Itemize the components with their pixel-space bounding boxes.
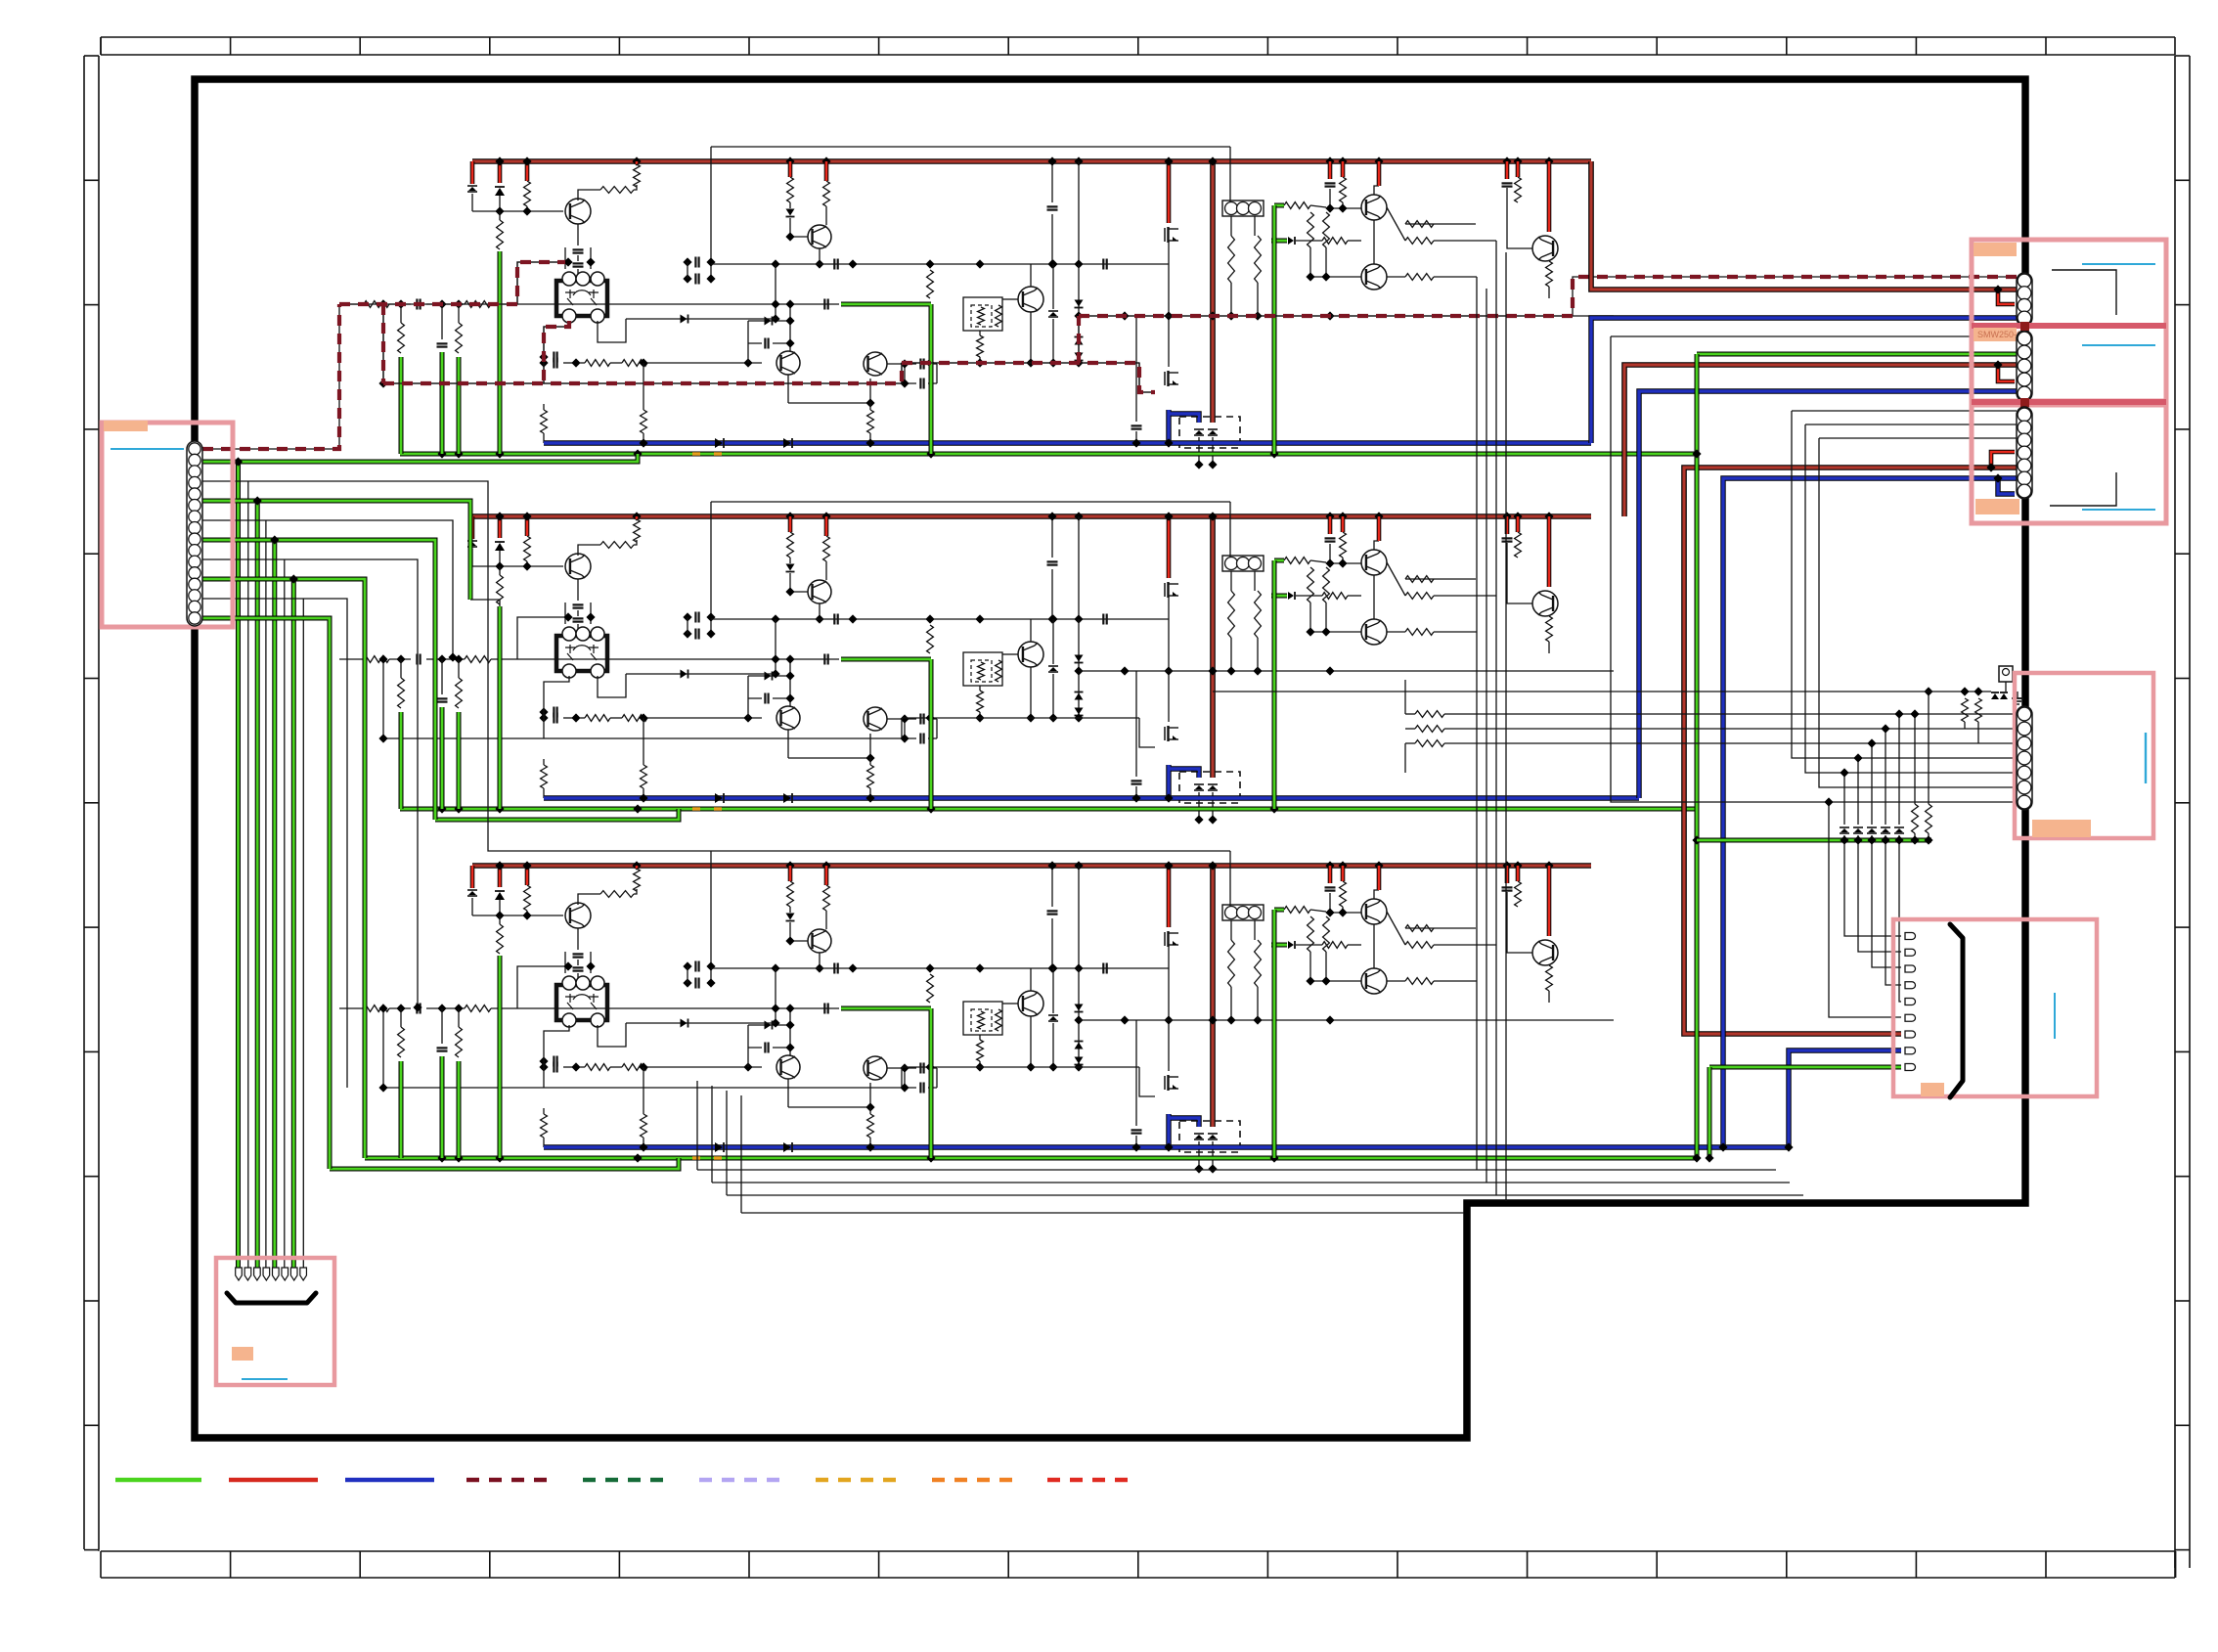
- thin feeder connector J4 row 1: [1792, 411, 2017, 758]
- J3 label fill: [1974, 328, 2017, 341]
- blue bus: [544, 440, 1591, 445]
- legend dashed red: [1047, 1478, 1133, 1483]
- channel block 2 (middle): [339, 502, 1614, 778]
- double diode marks: [1991, 693, 1999, 699]
- connector J1 pin stack: [187, 441, 202, 626]
- red wire rail2 to connector J3: [1624, 365, 2017, 516]
- riser resistor to blue 3: [869, 402, 871, 410]
- dashed long run to IGBT: [383, 363, 1155, 392]
- long thin wire y707: [1213, 691, 1991, 692]
- green mid segment block3: [841, 1008, 931, 1158]
- legend solid blue: [345, 1478, 434, 1483]
- opto LED marks: [692, 452, 700, 455]
- J4 divider: [1972, 399, 2166, 405]
- J5 cyan line: [2054, 993, 2056, 1039]
- connector J7 box (bottom left): [216, 1258, 334, 1385]
- sheet top ruler band: [101, 36, 2175, 38]
- riser resistor to blue 3: [869, 1106, 871, 1114]
- red elbow J4: [1991, 452, 2015, 468]
- red wire connector J4 net: [1684, 468, 2017, 1034]
- ground symbol: [2017, 692, 2018, 698]
- board outline (thick): [195, 79, 2025, 1438]
- connector J1 box (left): [102, 423, 233, 627]
- J5 label fill: [1921, 1083, 1944, 1096]
- cap column wires to bottom connector: [1843, 773, 1845, 825]
- blue bus: [544, 1144, 1789, 1149]
- legend dashed dark green: [583, 1478, 672, 1483]
- connector J6 pin stack: [2017, 706, 2032, 810]
- sheet right ruler band: [2174, 56, 2176, 1568]
- J1 label fill: [104, 421, 148, 431]
- green bus A: [365, 1156, 1698, 1161]
- J6 cyan line: [2145, 733, 2147, 783]
- blue wire to bottom connector J5: [1789, 1050, 1901, 1147]
- dashed overlay on block1 input line: [339, 262, 565, 304]
- green wire to bottom connector J5: [1709, 1065, 1901, 1070]
- green drops join: [399, 1155, 404, 1161]
- J1 cyan line: [111, 448, 184, 450]
- riser resistor to blue 1: [543, 1108, 545, 1114]
- dashed riser x1103: [1078, 316, 1080, 363]
- J4 label fill: [1975, 499, 2019, 514]
- riser cap x1162: [1131, 424, 1142, 426]
- blue jog from M2: [1169, 1114, 1199, 1147]
- J3 cyan line: [2082, 344, 2155, 346]
- riser resistor to blue 2: [643, 759, 644, 765]
- green drops join: [399, 806, 404, 812]
- J5 bracket curve: [1950, 924, 1963, 1097]
- blue jog from M2: [1169, 410, 1199, 443]
- dashed drop to chain: [382, 304, 384, 383]
- connector row 5 black (block2 input feed + bundle 4): [202, 520, 453, 657]
- riser cap x1162: [1131, 1129, 1142, 1131]
- dashed from opto out: [544, 321, 569, 383]
- connector row 10 green (busB3 feeder): [202, 618, 330, 1169]
- connector row 4 green (block2 green feed + bundle 3): [202, 501, 470, 600]
- connector row 2 green (bus link + bundle 1): [202, 454, 638, 462]
- legend dashed purple: [699, 1478, 785, 1483]
- riser resistor to blue 2: [643, 404, 644, 410]
- blue wire block2 to connector J3: [1639, 391, 2017, 798]
- J7 label fill: [232, 1347, 253, 1361]
- sheet left ruler band: [83, 56, 85, 1549]
- green drop wires block2: [399, 712, 404, 809]
- thin horizontals below block3: [697, 1081, 1776, 1170]
- riser resistor to blue 2: [643, 1108, 644, 1114]
- red wire rail1 to connector J2: [1591, 161, 2017, 290]
- green mid segment block2: [841, 659, 931, 809]
- legend solid green: [115, 1478, 201, 1483]
- blue bus: [544, 795, 1639, 800]
- res pair to green bus: [1914, 714, 1916, 804]
- legend solid red: [229, 1478, 318, 1483]
- thin wires block1 to lower-right (4 verticals): [1476, 277, 1478, 1170]
- blue jog from M2: [1169, 765, 1199, 798]
- connector row 9 black (block3 chain feed + bundle 8): [202, 599, 347, 1088]
- green bus B: [330, 1158, 679, 1169]
- blue elbow J4: [1998, 478, 2015, 494]
- green vertical right: [1695, 354, 1700, 1157]
- J3 divider: [1972, 323, 2166, 329]
- red elbow J2: [1998, 290, 2015, 304]
- riser cap x1162: [1131, 780, 1142, 781]
- J2 label fill: [1974, 243, 2017, 256]
- connector J7 pins: [236, 1268, 243, 1280]
- dashed component box: [1179, 1121, 1240, 1152]
- sheet bottom ruler band: [101, 1550, 2175, 1552]
- connector J5 pins: [1905, 933, 1916, 940]
- svg-text:SMW250-0: SMW250-0: [1977, 330, 2021, 339]
- blue wire block1 to connector J2: [1591, 318, 2017, 443]
- riser resistor to blue 1: [543, 759, 545, 765]
- connector row 3 black (bypass feeder + bundle 2): [202, 481, 711, 851]
- J7 bracket curve: [227, 1293, 316, 1303]
- green bus A: [400, 452, 1698, 457]
- J6 label fill: [2032, 820, 2091, 837]
- connector J2 box (right top): [1972, 240, 2166, 326]
- connector J4 box (right 3rd): [1972, 405, 2166, 523]
- connector J3 box (right 2nd): [1972, 326, 2166, 401]
- J2 bracket: [2052, 270, 2116, 315]
- green bus A: [400, 807, 1698, 812]
- green drop wires block1: [399, 357, 404, 454]
- opto LED marks: [692, 1156, 700, 1159]
- J4 red mark: [2020, 398, 2029, 407]
- connector row 8 green (busA3 feeder + bundle 7): [202, 579, 365, 1158]
- component X1 (top of J6): [1999, 666, 2013, 682]
- dashed wire from connector to block1 input: [202, 304, 339, 449]
- channel block 3 (bottom): [339, 851, 1614, 1127]
- connector row 7 black (block3 input feed + bundle 6): [202, 559, 418, 1007]
- J4 cyan line: [2082, 509, 2155, 511]
- connector J4 pin stack: [2017, 407, 2032, 499]
- connector J2 pin stack: [2017, 273, 2032, 326]
- connector J6 box (mid right): [2015, 673, 2153, 838]
- green bus B: [435, 809, 679, 820]
- J3 red mark: [2020, 322, 2029, 331]
- legend dashed maroon: [466, 1478, 553, 1483]
- legend dashed orange: [932, 1478, 1018, 1483]
- green wire connector J3 branch: [1697, 352, 2017, 357]
- dashed run to connector J2: [1079, 277, 2017, 316]
- J4 bracket: [2050, 472, 2116, 506]
- connector J3 pin stack: [2017, 331, 2032, 401]
- res drops J6: [1962, 698, 1969, 722]
- connector row 6 green (busB2 feeder + bundle 5): [202, 540, 435, 820]
- green bus right with cap row: [1697, 838, 1931, 843]
- green drop wires block3: [399, 1061, 404, 1158]
- red elbow J3: [1998, 365, 2015, 381]
- J7 cyan line: [242, 1378, 288, 1380]
- thin rows into connector J6 (mid right): [1405, 713, 1415, 715]
- legend dashed amber: [816, 1478, 902, 1483]
- dashed component box: [1179, 417, 1240, 448]
- dashed component box: [1179, 772, 1240, 803]
- connector J5 box (bottom right): [1893, 919, 2097, 1096]
- thin L from J3 pin1: [1611, 336, 2017, 802]
- riser resistor to blue 1: [543, 404, 545, 410]
- channel block 1 (top): [339, 147, 1614, 423]
- blue wire block3 to connector J4: [1723, 478, 2017, 1147]
- riser resistor to blue 3: [869, 757, 871, 765]
- green drops join: [399, 451, 404, 457]
- green mid segment block1: [841, 304, 931, 454]
- thin feeder connector J4 row 2: [1805, 424, 2017, 773]
- J2 cyan line: [2082, 263, 2155, 265]
- thin feeder connector J4 row 3: [1819, 438, 2017, 787]
- opto LED marks: [692, 807, 700, 810]
